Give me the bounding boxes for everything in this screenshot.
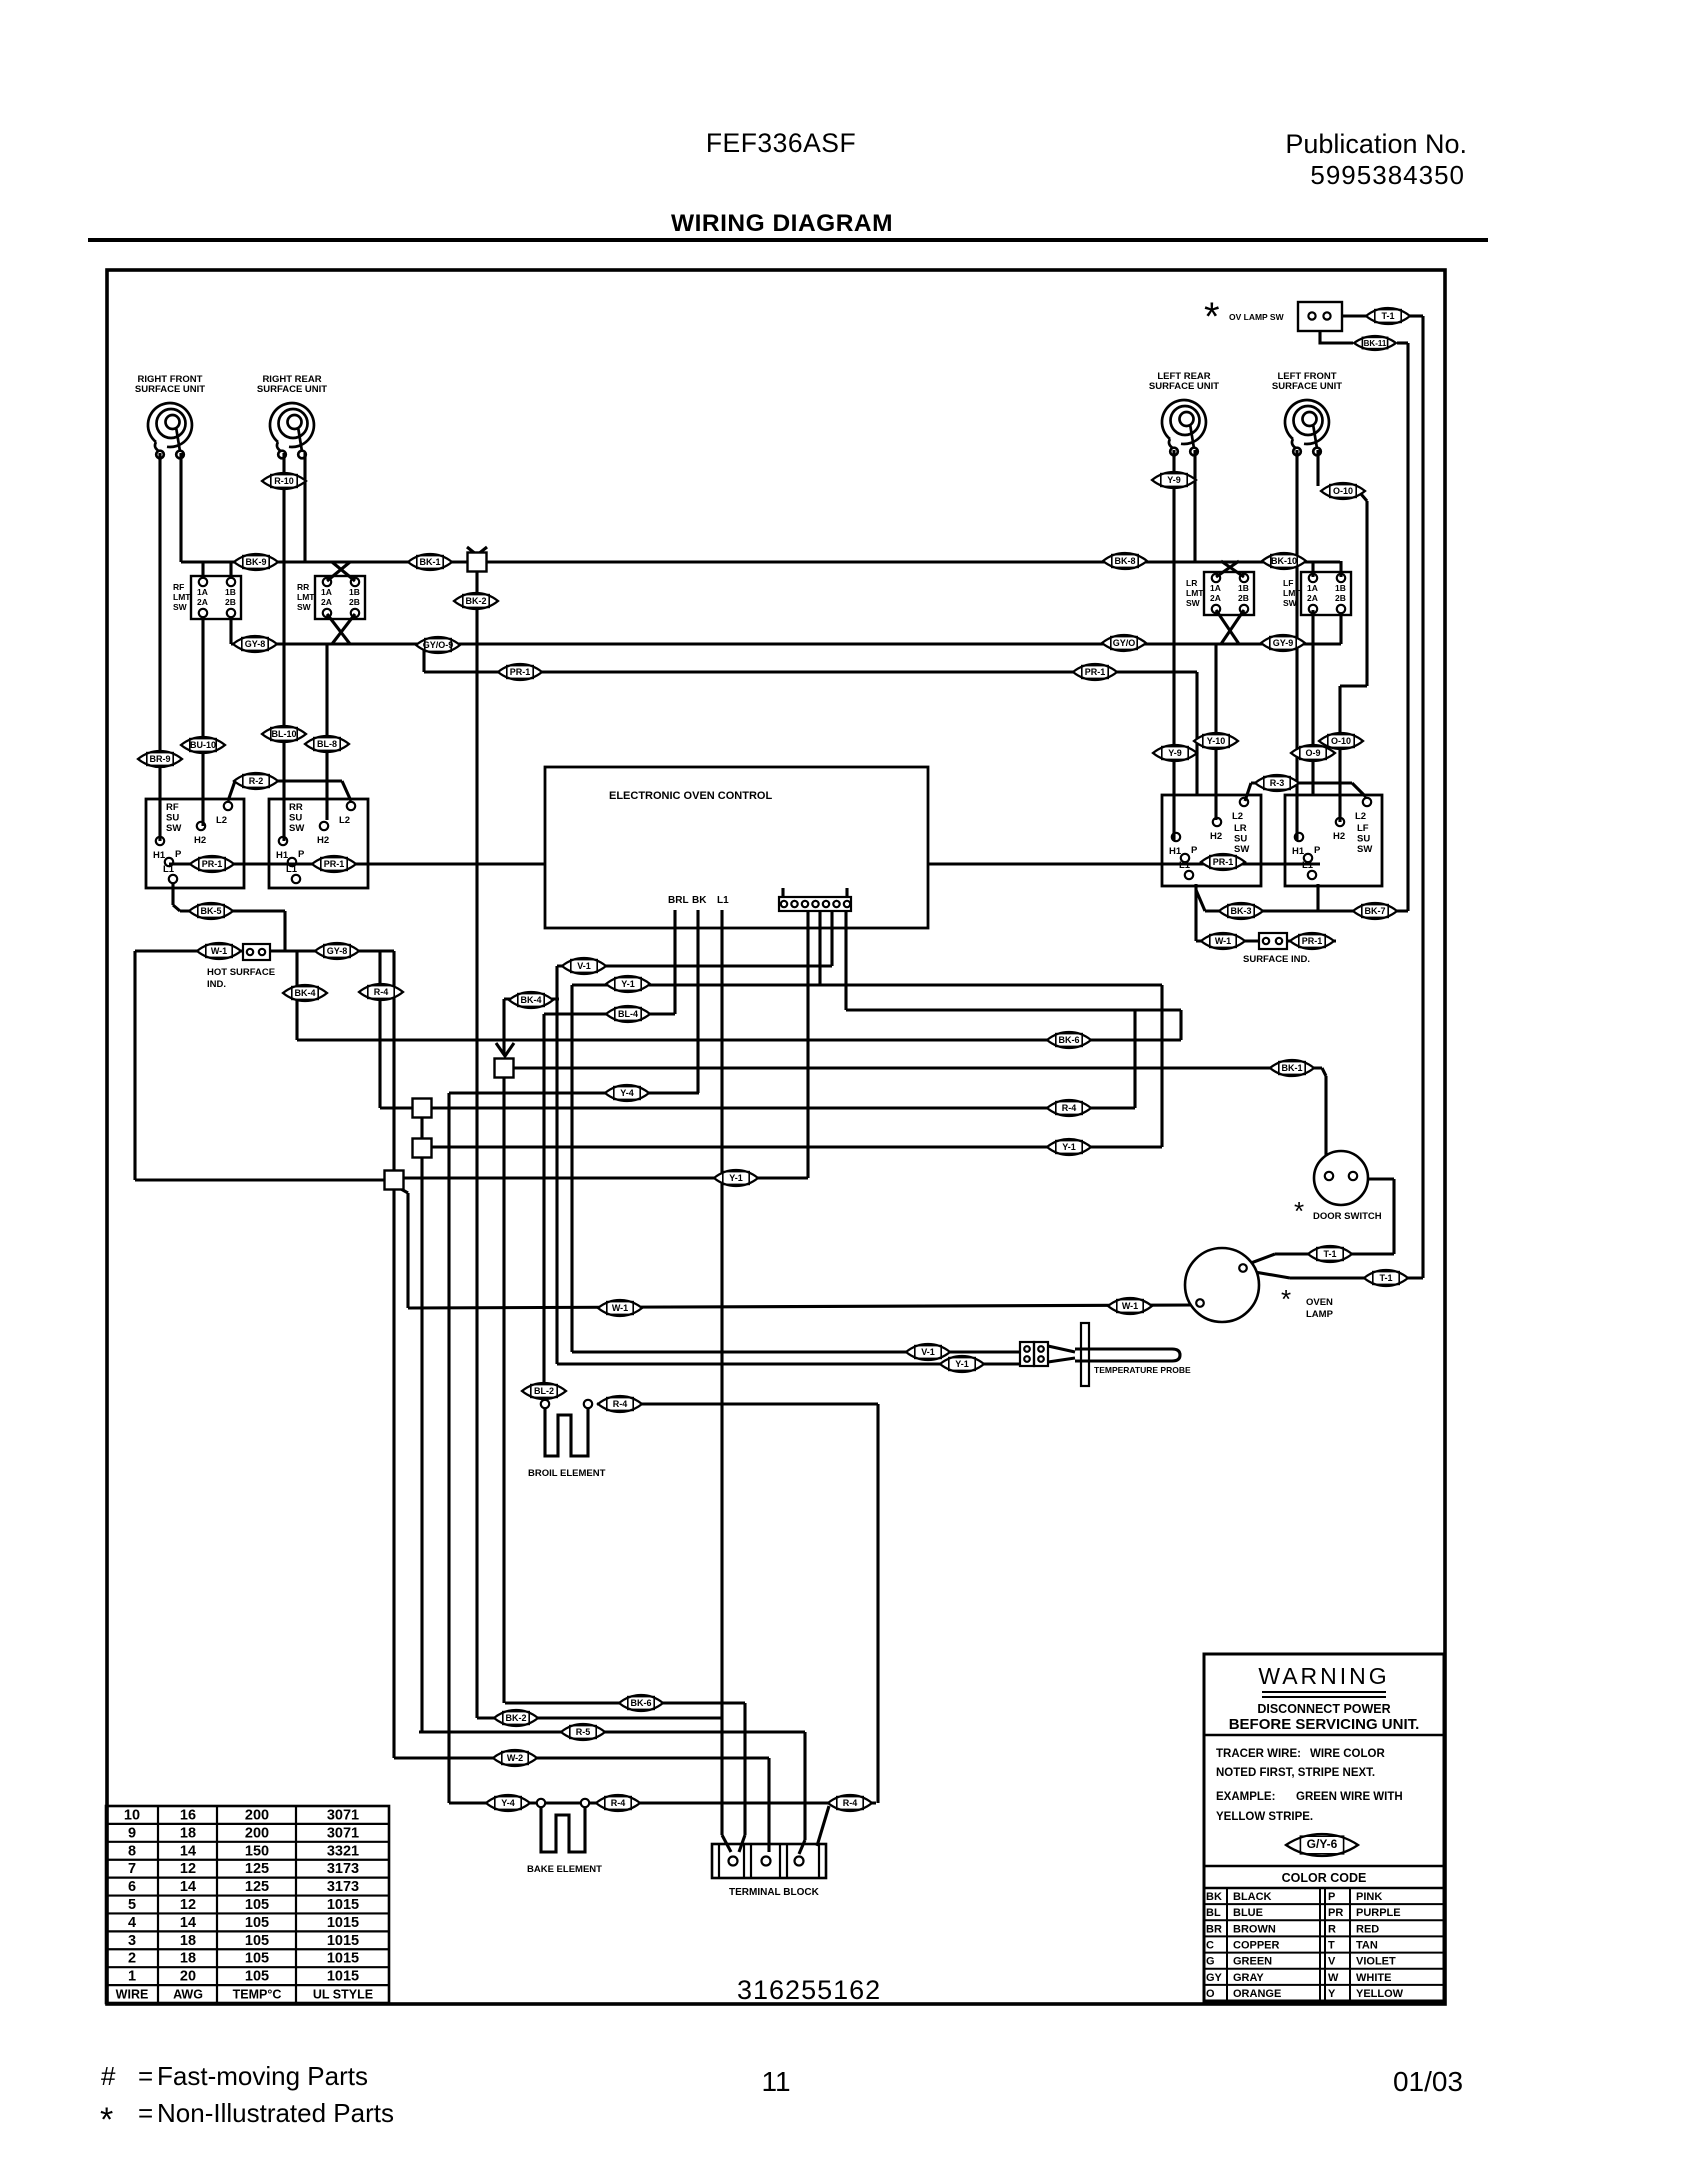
- svg-text:2B: 2B: [349, 597, 360, 607]
- svg-text:RF: RF: [173, 582, 184, 592]
- svg-text:O-10: O-10: [1331, 736, 1351, 746]
- svg-text:3173: 3173: [327, 1879, 359, 1895]
- svg-text:316255162: 316255162: [737, 1975, 881, 2005]
- svg-text:LF: LF: [1283, 578, 1293, 588]
- svg-text:SW: SW: [297, 602, 312, 612]
- svg-text:BK-9: BK-9: [245, 557, 266, 567]
- svg-text:1015: 1015: [327, 1951, 359, 1967]
- svg-text:W-2: W-2: [507, 1753, 523, 1763]
- svg-text:BK-10: BK-10: [1271, 556, 1297, 566]
- svg-text:10: 10: [124, 1807, 140, 1823]
- svg-text:105: 105: [245, 1915, 269, 1931]
- svg-text:EXAMPLE:: EXAMPLE:: [1216, 1791, 1275, 1803]
- svg-text:BK-6: BK-6: [1058, 1035, 1079, 1045]
- svg-text:*: *: [100, 2101, 113, 2139]
- svg-text:3173: 3173: [327, 1861, 359, 1877]
- svg-text:UL STYLE: UL STYLE: [313, 1988, 373, 2002]
- svg-text:WIRE COLOR: WIRE COLOR: [1310, 1748, 1385, 1760]
- svg-text:200: 200: [245, 1807, 269, 1823]
- svg-text:3321: 3321: [327, 1843, 359, 1859]
- svg-text:WIRING DIAGRAM: WIRING DIAGRAM: [671, 210, 893, 237]
- svg-text:2A: 2A: [321, 597, 332, 607]
- svg-text:L1: L1: [163, 864, 175, 875]
- svg-text:Y-9: Y-9: [1168, 748, 1182, 758]
- svg-text:H2: H2: [194, 835, 206, 846]
- svg-text:SU: SU: [1357, 834, 1370, 845]
- svg-text:2A: 2A: [1210, 593, 1221, 603]
- svg-text:2A: 2A: [197, 597, 208, 607]
- svg-text:1B: 1B: [1335, 583, 1346, 593]
- svg-text:BK-7: BK-7: [1364, 906, 1385, 916]
- svg-text:BK-8: BK-8: [1114, 556, 1135, 566]
- svg-text:2B: 2B: [1238, 593, 1249, 603]
- svg-text:V-1: V-1: [577, 961, 591, 971]
- svg-text:TAN: TAN: [1356, 1940, 1378, 1952]
- svg-text:H2: H2: [317, 835, 329, 846]
- svg-text:V: V: [1328, 1956, 1336, 1968]
- svg-text:105: 105: [245, 1933, 269, 1949]
- svg-text:1015: 1015: [327, 1933, 359, 1949]
- svg-text:12: 12: [180, 1897, 196, 1913]
- svg-text:T-1: T-1: [1381, 311, 1394, 321]
- svg-text:Y: Y: [1328, 1988, 1336, 2000]
- svg-text:LR: LR: [1234, 823, 1247, 834]
- svg-text:*: *: [1294, 1196, 1304, 1226]
- svg-text:2B: 2B: [1335, 593, 1346, 603]
- svg-text:L2: L2: [1232, 811, 1243, 822]
- svg-text:IND.: IND.: [207, 979, 226, 990]
- svg-text:14: 14: [180, 1843, 196, 1859]
- svg-text:BL-4: BL-4: [618, 1009, 638, 1019]
- svg-text:SU: SU: [289, 813, 302, 824]
- svg-text:PR-1: PR-1: [1213, 857, 1234, 867]
- svg-text:1A: 1A: [321, 587, 332, 597]
- svg-text:O: O: [1206, 1988, 1215, 2000]
- svg-text:BLACK: BLACK: [1233, 1891, 1272, 1903]
- svg-text:BAKE ELEMENT: BAKE ELEMENT: [527, 1864, 602, 1875]
- svg-text:WARNING: WARNING: [1258, 1663, 1389, 1689]
- svg-text:R-4: R-4: [611, 1798, 626, 1808]
- svg-text:6: 6: [128, 1879, 136, 1895]
- svg-text:SW: SW: [173, 602, 188, 612]
- svg-text:BL-8: BL-8: [317, 739, 337, 749]
- svg-text:PR-1: PR-1: [324, 859, 345, 869]
- svg-text:RF: RF: [166, 802, 179, 813]
- svg-text:DISCONNECT POWER: DISCONNECT POWER: [1257, 1702, 1390, 1716]
- svg-text:W-1: W-1: [612, 1303, 628, 1313]
- svg-text:20: 20: [180, 1969, 196, 1985]
- svg-text:01/03: 01/03: [1393, 2066, 1463, 2097]
- svg-text:GY/O: GY/O: [1113, 638, 1136, 648]
- svg-text:R: R: [1328, 1923, 1336, 1935]
- svg-text:GRAY: GRAY: [1233, 1972, 1264, 1984]
- svg-text:105: 105: [245, 1951, 269, 1967]
- svg-text:P: P: [298, 849, 305, 860]
- svg-text:O-10: O-10: [1333, 486, 1353, 496]
- svg-text:BL: BL: [1206, 1907, 1221, 1919]
- svg-text:*: *: [1204, 295, 1220, 339]
- svg-text:PINK: PINK: [1356, 1891, 1382, 1903]
- svg-text:BK-2: BK-2: [465, 596, 486, 606]
- svg-text:SURFACE UNIT: SURFACE UNIT: [1272, 381, 1342, 392]
- svg-text:YELLOW: YELLOW: [1356, 1988, 1404, 2000]
- svg-text:BR-9: BR-9: [149, 754, 170, 764]
- svg-text:W-1: W-1: [1122, 1301, 1138, 1311]
- svg-text:BK-1: BK-1: [419, 557, 440, 567]
- svg-text:HOT SURFACE: HOT SURFACE: [207, 967, 275, 978]
- svg-text:Y-4: Y-4: [501, 1798, 515, 1808]
- svg-text:GREEN WIRE WITH: GREEN WIRE WITH: [1296, 1791, 1403, 1803]
- svg-text:4: 4: [128, 1915, 136, 1931]
- svg-text:BK: BK: [1206, 1891, 1222, 1903]
- svg-text:LMT: LMT: [297, 592, 315, 602]
- svg-text:16: 16: [180, 1807, 196, 1823]
- svg-text:Fast-moving Parts: Fast-moving Parts: [157, 2061, 368, 2091]
- svg-text:R-10: R-10: [274, 476, 294, 486]
- svg-text:ORANGE: ORANGE: [1233, 1988, 1281, 2000]
- svg-text:Y-10: Y-10: [1207, 736, 1226, 746]
- svg-text:G: G: [1206, 1956, 1215, 1968]
- svg-text:18: 18: [180, 1933, 196, 1949]
- svg-text:14: 14: [180, 1879, 196, 1895]
- svg-text:AWG: AWG: [173, 1988, 203, 2002]
- svg-text:BR: BR: [1206, 1923, 1222, 1935]
- svg-text:200: 200: [245, 1825, 269, 1841]
- svg-text:9: 9: [128, 1825, 136, 1841]
- svg-text:2: 2: [128, 1951, 136, 1967]
- svg-text:SU: SU: [166, 813, 179, 824]
- svg-text:1: 1: [128, 1969, 136, 1985]
- svg-text:BRL: BRL: [668, 895, 689, 906]
- svg-text:OVEN: OVEN: [1306, 1297, 1333, 1308]
- svg-text:SURFACE UNIT: SURFACE UNIT: [257, 384, 327, 395]
- svg-text:BK-4: BK-4: [520, 995, 541, 1005]
- svg-text:BEFORE SERVICING UNIT.: BEFORE SERVICING UNIT.: [1229, 1716, 1420, 1733]
- svg-text:GY-8: GY-8: [245, 639, 266, 649]
- svg-text:R-4: R-4: [613, 1399, 628, 1409]
- svg-text:RR: RR: [289, 802, 303, 813]
- svg-text:W: W: [1328, 1972, 1339, 1984]
- svg-text:COLOR CODE: COLOR CODE: [1282, 1871, 1367, 1885]
- svg-text:=: =: [138, 2098, 153, 2128]
- svg-text:BROWN: BROWN: [1233, 1923, 1276, 1935]
- svg-text:BLUE: BLUE: [1233, 1907, 1263, 1919]
- svg-text:1015: 1015: [327, 1969, 359, 1985]
- svg-text:ELECTRONIC OVEN CONTROL: ELECTRONIC OVEN CONTROL: [609, 790, 772, 802]
- svg-text:18: 18: [180, 1951, 196, 1967]
- svg-text:NOTED FIRST, STRIPE NEXT.: NOTED FIRST, STRIPE NEXT.: [1216, 1767, 1375, 1779]
- svg-text:BK-6: BK-6: [630, 1698, 651, 1708]
- svg-text:PURPLE: PURPLE: [1356, 1907, 1401, 1919]
- svg-text:DOOR SWITCH: DOOR SWITCH: [1313, 1211, 1382, 1222]
- svg-text:H2: H2: [1210, 831, 1222, 842]
- svg-text:T-1: T-1: [1379, 1273, 1392, 1283]
- svg-text:*: *: [1281, 1284, 1291, 1314]
- svg-text:SU: SU: [1234, 834, 1247, 845]
- svg-text:GY-9: GY-9: [1273, 638, 1294, 648]
- svg-text:1015: 1015: [327, 1915, 359, 1931]
- svg-text:VIOLET: VIOLET: [1356, 1956, 1396, 1968]
- svg-text:W-1: W-1: [211, 946, 227, 956]
- svg-text:P: P: [1191, 845, 1198, 856]
- svg-text:1A: 1A: [197, 587, 208, 597]
- svg-text:WIRE: WIRE: [116, 1988, 149, 2002]
- svg-text:L1: L1: [286, 864, 298, 875]
- svg-text:2B: 2B: [225, 597, 236, 607]
- svg-text:GY: GY: [1206, 1972, 1223, 1984]
- svg-text:14: 14: [180, 1915, 196, 1931]
- svg-text:Publication No.: Publication No.: [1285, 129, 1467, 159]
- svg-text:SW: SW: [166, 823, 181, 834]
- svg-text:11: 11: [761, 2066, 790, 2097]
- svg-text:T-1: T-1: [1323, 1249, 1336, 1259]
- svg-text:LMT: LMT: [173, 592, 191, 602]
- svg-text:LAMP: LAMP: [1306, 1309, 1334, 1320]
- svg-text:105: 105: [245, 1969, 269, 1985]
- svg-text:R-5: R-5: [576, 1727, 591, 1737]
- svg-text:P: P: [1314, 845, 1321, 856]
- svg-text:R-3: R-3: [1270, 778, 1285, 788]
- svg-text:BK-3: BK-3: [1230, 906, 1251, 916]
- svg-text:LF: LF: [1357, 823, 1369, 834]
- svg-text:COPPER: COPPER: [1233, 1940, 1280, 1952]
- svg-text:8: 8: [128, 1843, 136, 1859]
- svg-text:12: 12: [180, 1861, 196, 1877]
- svg-text:R-2: R-2: [249, 776, 264, 786]
- svg-text:TEMPERATURE PROBE: TEMPERATURE PROBE: [1094, 1365, 1191, 1375]
- svg-text:T: T: [1328, 1940, 1335, 1952]
- svg-text:BL-10: BL-10: [271, 729, 296, 739]
- svg-text:TERMINAL BLOCK: TERMINAL BLOCK: [729, 1887, 820, 1898]
- svg-text:Y-4: Y-4: [620, 1088, 634, 1098]
- svg-text:H1: H1: [1292, 846, 1305, 857]
- svg-text:SURFACE IND.: SURFACE IND.: [1243, 954, 1310, 965]
- svg-text:RED: RED: [1356, 1923, 1379, 1935]
- svg-text:3: 3: [128, 1933, 136, 1949]
- svg-text:1A: 1A: [1210, 583, 1221, 593]
- svg-text:H1: H1: [153, 850, 166, 861]
- svg-text:SURFACE UNIT: SURFACE UNIT: [1149, 381, 1219, 392]
- svg-text:2A: 2A: [1307, 593, 1318, 603]
- svg-text:=: =: [138, 2061, 153, 2091]
- svg-text:H1: H1: [276, 850, 289, 861]
- svg-text:1A: 1A: [1307, 583, 1318, 593]
- svg-text:1015: 1015: [327, 1897, 359, 1913]
- svg-text:BK-5: BK-5: [200, 906, 221, 916]
- svg-text:TRACER WIRE:: TRACER WIRE:: [1216, 1748, 1301, 1760]
- svg-text:BROIL ELEMENT: BROIL ELEMENT: [528, 1468, 606, 1479]
- svg-text:PR-1: PR-1: [1085, 667, 1106, 677]
- svg-text:1B: 1B: [1238, 583, 1249, 593]
- svg-text:BU-10: BU-10: [190, 740, 216, 750]
- svg-text:1B: 1B: [349, 587, 360, 597]
- svg-text:SW: SW: [1186, 598, 1201, 608]
- svg-text:LMT: LMT: [1186, 588, 1204, 598]
- svg-text:Y-9: Y-9: [1167, 475, 1181, 485]
- svg-text:SURFACE UNIT: SURFACE UNIT: [135, 384, 205, 395]
- svg-text:BK-4: BK-4: [294, 988, 315, 998]
- svg-text:BK-11: BK-11: [1364, 339, 1387, 348]
- svg-text:YELLOW STRIPE.: YELLOW STRIPE.: [1216, 1811, 1313, 1823]
- svg-text:LR: LR: [1186, 578, 1197, 588]
- svg-text:R-4: R-4: [374, 987, 389, 997]
- svg-text:3071: 3071: [327, 1825, 359, 1841]
- svg-text:PR-1: PR-1: [510, 667, 531, 677]
- svg-text:150: 150: [245, 1843, 269, 1859]
- svg-text:BK-1: BK-1: [1281, 1063, 1302, 1073]
- svg-text:GY-8: GY-8: [327, 946, 348, 956]
- svg-text:L1: L1: [717, 895, 729, 906]
- svg-text:BL-2: BL-2: [534, 1386, 554, 1396]
- svg-text:GREEN: GREEN: [1233, 1956, 1272, 1968]
- svg-text:W-1: W-1: [1215, 936, 1231, 946]
- svg-text:L2: L2: [216, 815, 227, 826]
- svg-text:RR: RR: [297, 582, 309, 592]
- svg-text:BK-2: BK-2: [505, 1713, 526, 1723]
- svg-text:#: #: [101, 2061, 116, 2091]
- svg-text:P: P: [1328, 1891, 1335, 1903]
- svg-text:G/Y-6: G/Y-6: [1307, 1837, 1338, 1851]
- svg-text:18: 18: [180, 1825, 196, 1841]
- svg-text:1B: 1B: [225, 587, 236, 597]
- svg-text:L2: L2: [1355, 811, 1366, 822]
- svg-text:C: C: [1206, 1940, 1214, 1952]
- svg-text:125: 125: [245, 1861, 269, 1877]
- svg-text:Non-Illustrated Parts: Non-Illustrated Parts: [157, 2098, 394, 2128]
- svg-text:TEMP°C: TEMP°C: [233, 1988, 282, 2002]
- svg-text:Y-1: Y-1: [1062, 1142, 1076, 1152]
- svg-text:R-4: R-4: [1062, 1103, 1077, 1113]
- svg-text:5995384350: 5995384350: [1310, 160, 1465, 190]
- svg-text:3071: 3071: [327, 1807, 359, 1823]
- svg-text:R-4: R-4: [843, 1798, 858, 1808]
- svg-text:FEF336ASF: FEF336ASF: [706, 128, 856, 158]
- svg-text:105: 105: [245, 1897, 269, 1913]
- svg-text:SW: SW: [289, 823, 304, 834]
- svg-text:BK: BK: [692, 895, 707, 906]
- svg-text:GY/O-9: GY/O-9: [423, 640, 454, 650]
- svg-text:125: 125: [245, 1879, 269, 1895]
- svg-text:PR: PR: [1328, 1907, 1343, 1919]
- svg-text:H1: H1: [1169, 846, 1182, 857]
- svg-text:OV LAMP SW: OV LAMP SW: [1229, 312, 1285, 322]
- svg-text:V-1: V-1: [921, 1347, 935, 1357]
- svg-text:P: P: [175, 849, 182, 860]
- svg-text:SW: SW: [1357, 844, 1372, 855]
- svg-text:O-9: O-9: [1305, 748, 1320, 758]
- svg-text:PR-1: PR-1: [1302, 936, 1323, 946]
- svg-text:5: 5: [128, 1897, 136, 1913]
- svg-text:SW: SW: [1234, 844, 1249, 855]
- svg-text:Y-1: Y-1: [729, 1173, 743, 1183]
- svg-text:L2: L2: [339, 815, 350, 826]
- svg-text:H2: H2: [1333, 831, 1345, 842]
- svg-text:PR-1: PR-1: [202, 859, 223, 869]
- svg-text:Y-1: Y-1: [955, 1359, 969, 1369]
- svg-text:Y-1: Y-1: [621, 979, 635, 989]
- svg-text:7: 7: [128, 1861, 136, 1877]
- svg-text:WHITE: WHITE: [1356, 1972, 1391, 1984]
